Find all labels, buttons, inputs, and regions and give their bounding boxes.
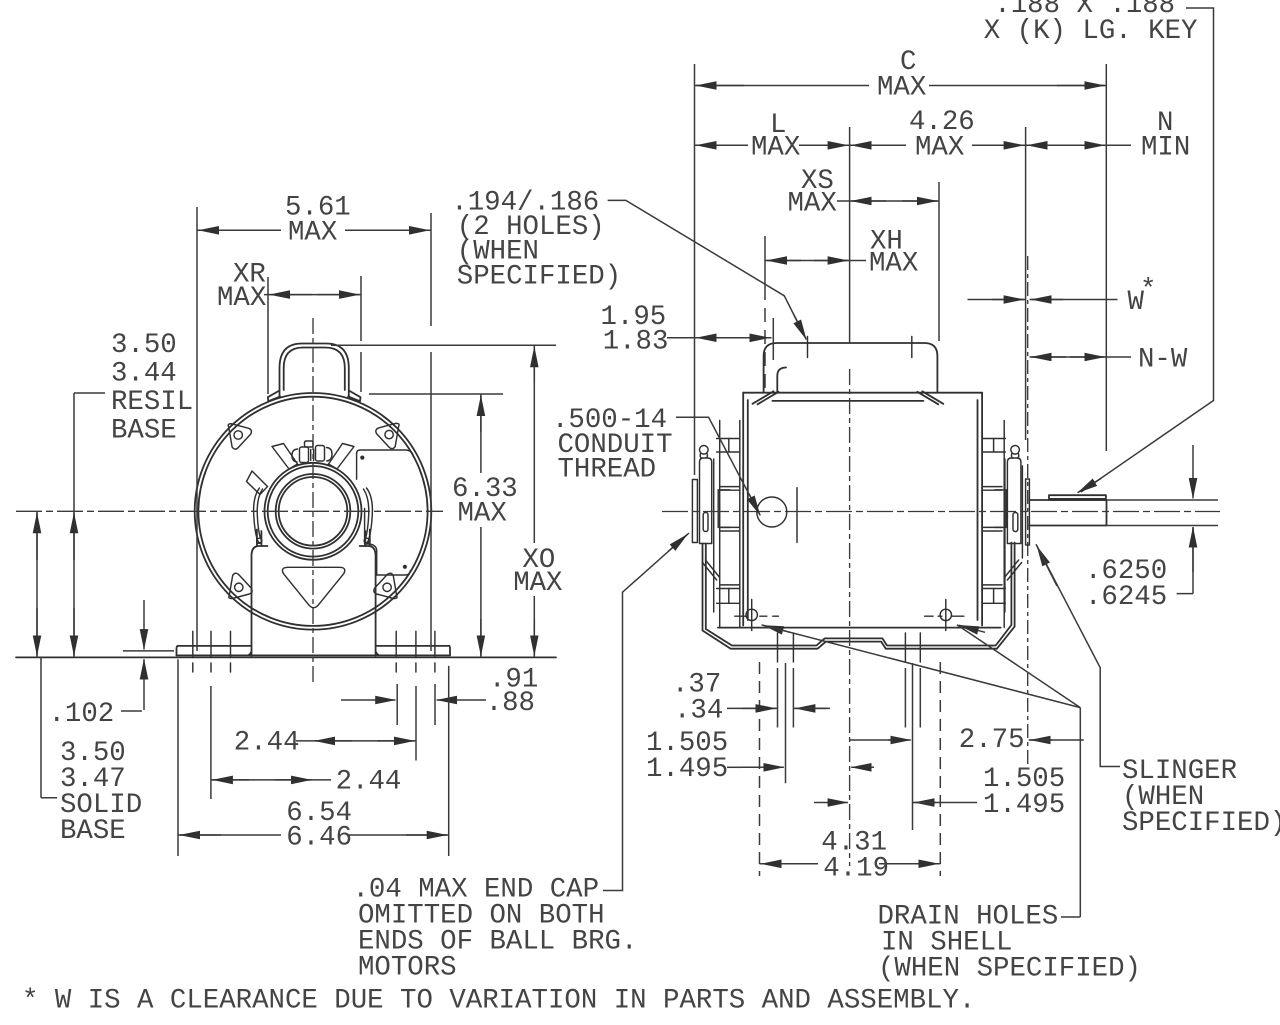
svg-text:SPECIFIED): SPECIFIED) (1122, 808, 1280, 839)
side view extension lines (695, 64, 1107, 475)
front view: ground line (16, 656, 556, 658)
dimension 5.61 MAX extension lines (197, 207, 431, 651)
side view: shaft (1029, 500, 1106, 526)
note SLINGER (WHEN SPECIFIED) with leader (1037, 546, 1057, 586)
dimension .102 pad thickness (123, 650, 174, 652)
svg-text:MAX: MAX (869, 249, 918, 280)
dimension .6250/.6245 shaft diameter (1192, 445, 1194, 498)
front view: motor shell circle (195, 393, 432, 630)
svg-text:BASE: BASE (60, 816, 126, 847)
dimension 1.505/1.495 right (814, 802, 848, 804)
dimension 1.95/1.83 (667, 337, 772, 339)
side view: right end bell with slinger (982, 421, 1029, 628)
svg-text:.102: .102 (49, 699, 115, 730)
svg-text:.6245: .6245 (1085, 582, 1167, 613)
front view: four bolt flanges with holes (228, 424, 251, 449)
dimension N MIN (1026, 144, 1131, 146)
front view: fan blade marks (247, 444, 355, 495)
front view: base plate slot ticks (193, 631, 435, 672)
side view: shaft surface extension lines (1107, 500, 1219, 526)
svg-text:X (K) LG. KEY: X (K) LG. KEY (984, 16, 1198, 47)
dimension XH MAX (765, 260, 866, 262)
svg-text:MAX: MAX (751, 133, 800, 164)
dimension 6.33 MAX (369, 393, 503, 395)
front view: base plate (177, 646, 451, 656)
side view: conduit box (753, 343, 944, 404)
svg-text:1.495: 1.495 (646, 754, 728, 785)
svg-text:2.44: 2.44 (234, 727, 300, 758)
front view: terminal cover panel (357, 450, 414, 575)
dimension solid-base height (left vertical) (36, 511, 38, 657)
dimension L MAX (695, 144, 850, 146)
side view: dashed extension lines for 4.31/4.19 (760, 662, 941, 876)
note DRAIN HOLES IN SHELL with leaders (763, 625, 790, 632)
dimension 2.44 (left slot to centerline) (210, 686, 212, 799)
svg-text:MOTORS: MOTORS (358, 953, 457, 984)
dimension 5.61 MAX (197, 229, 431, 231)
front view: base bracket (252, 530, 376, 656)
dimension W* (968, 299, 1118, 301)
side view: vertical centerline (849, 369, 851, 866)
svg-text:MAX: MAX (788, 189, 837, 220)
side view: .500-14 conduit hole (757, 488, 797, 543)
front view: bearing cap washer cluster at 12 o'clock (292, 441, 332, 463)
svg-text:1.495: 1.495 (983, 790, 1065, 821)
svg-text:MAX: MAX (458, 499, 507, 530)
dimension N-W (1030, 356, 1131, 358)
svg-text:THREAD: THREAD (558, 455, 657, 486)
svg-text:BASE: BASE (111, 416, 177, 447)
svg-text:MAX: MAX (877, 73, 926, 104)
side view: left end bell (692, 421, 739, 628)
side view: horizontal centerline (662, 511, 1220, 513)
side view: key on shaft (1049, 495, 1106, 500)
side view: foot slot ticks (778, 633, 921, 662)
resil base bracket (74, 392, 105, 394)
dimension 2.75 (850, 739, 892, 741)
front view: shaft boss and bore circles (265, 463, 362, 560)
side view: conduit box mounting hole ticks (2 holes) (808, 337, 912, 358)
dimension .91/.88 slot width (397, 684, 435, 725)
svg-text:MAX: MAX (915, 133, 964, 164)
svg-text:3.50: 3.50 (111, 330, 177, 361)
dimension 4.26 MAX (850, 144, 1026, 146)
dimension XO MAX (331, 344, 556, 346)
dimension .37/.34 foot slot width (727, 707, 778, 709)
dimension 6.54/6.46 overall base (178, 659, 449, 856)
svg-text:* W IS A CLEARANCE DUE TO VARI: * W IS A CLEARANCE DUE TO VARIATION IN P… (22, 986, 975, 1017)
front view: conduit box dome on top (268, 344, 361, 402)
svg-text:MAX: MAX (288, 218, 337, 249)
svg-text:4.19: 4.19 (823, 853, 889, 884)
svg-text:SPECIFIED): SPECIFIED) (457, 262, 621, 293)
front view: vertical centerline (312, 318, 314, 683)
side view: drain holes in shell (735, 600, 964, 631)
svg-text:6.46: 6.46 (286, 823, 352, 854)
front view: delta vent hole in bracket (282, 567, 344, 607)
svg-text:MAX: MAX (513, 568, 562, 599)
dimension resil-base height (second vertical) (73, 393, 75, 657)
dimension XS MAX (837, 200, 939, 202)
dimension 2.44 (centerline to right slot) (415, 686, 417, 761)
solid base label bracket (41, 658, 57, 798)
svg-text:.88: .88 (486, 688, 535, 719)
svg-text:3.44: 3.44 (111, 359, 177, 390)
side view: bearing face dash-dot line (1027, 256, 1029, 768)
svg-text:2.44: 2.44 (336, 767, 402, 798)
dimension C MAX (695, 85, 1107, 87)
svg-text:*: * (1140, 275, 1156, 306)
dimension 4.31/4.19 (760, 863, 941, 865)
front view: horizontal centerline (16, 510, 443, 512)
side view: motor body shell (718, 393, 1001, 628)
dimension XR MAX (264, 294, 361, 296)
svg-text:RESIL: RESIL (111, 387, 193, 418)
svg-text:.34: .34 (674, 696, 723, 727)
svg-text:(WHEN SPECIFIED): (WHEN SPECIFIED) (878, 954, 1141, 985)
side view: cradle base (703, 543, 1015, 649)
front view: resilient ring hooks at 3 and 9 o'clock (254, 488, 373, 543)
svg-text:2.75: 2.75 (959, 725, 1025, 756)
dimension 1.505/1.495 left (727, 766, 742, 768)
svg-text:1.83: 1.83 (603, 327, 669, 358)
svg-text:MIN: MIN (1141, 133, 1190, 164)
svg-text:MAX: MAX (217, 283, 266, 314)
svg-text:N-W: N-W (1138, 345, 1188, 376)
dimension XR MAX extension lines (268, 276, 361, 394)
